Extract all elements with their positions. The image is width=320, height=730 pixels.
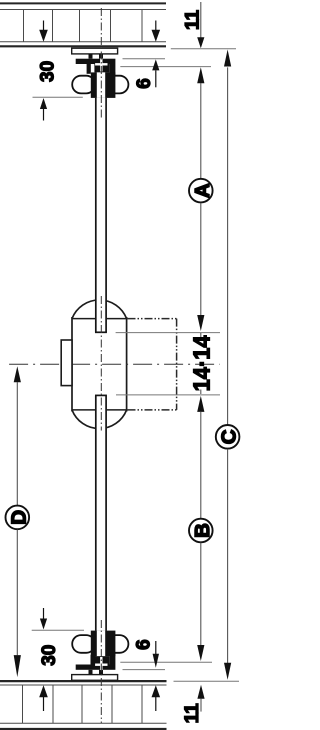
bottom rod guide ears [72,635,95,653]
rod white fill top section [95,98,107,333]
rod outlines top section [95,98,107,333]
top rod guide ears [72,76,95,94]
latch housing body [72,300,127,429]
dim 6 top [120,21,211,89]
svg-text:11: 11 [183,10,204,31]
housing left tab [61,340,72,386]
svg-text:A: A [191,183,214,198]
dim 11 top [171,2,236,49]
bottom clamp rod slot [97,631,105,657]
horizontal centerline [9,363,220,365]
bottom panel [0,681,167,729]
dim D [5,366,30,677]
bottom bracket left column [91,655,96,665]
bottom bracket plate [72,675,118,681]
bottom bracket screw flange [94,656,109,664]
dim 6 bottom [123,639,166,711]
dim 14·14 [189,333,215,394]
dim 11 bottom [182,685,204,724]
svg-text:C: C [218,429,241,444]
svg-text:30: 30 [38,61,59,82]
svg-text:D: D [7,510,30,525]
dim B [120,396,214,662]
svg-text:11: 11 [182,703,203,724]
dim 30 top [33,21,83,121]
bottom bracket arm bar [76,665,116,670]
svg-text:6: 6 [134,639,155,650]
svg-text:14·14: 14·14 [189,335,215,391]
top bracket arm bar [76,59,116,64]
top clamp rod slot [97,72,105,98]
top bracket nubs [89,54,93,59]
top clamp block [91,72,116,98]
bottom clamp block [91,631,116,657]
dim C [174,50,241,682]
rod outlines bottom section [95,395,107,630]
dim A [189,67,214,331]
top bracket right column [110,64,116,92]
bottom screw cross [100,657,102,670]
bottom bracket right column [110,637,116,665]
top bracket plate [72,48,118,54]
housing phantom outline (alternate position) [128,319,177,410]
rod vertical centerline [100,8,102,723]
svg-text:B: B [191,523,214,538]
dim 14·14 extension lines [116,332,220,334]
dim 30 bottom [32,608,84,711]
svg-text:6: 6 [134,78,155,89]
bottom bracket nubs [89,670,93,675]
top bracket screw flange [94,64,109,72]
rod white fill bottom section [95,395,107,631]
svg-text:30: 30 [39,645,60,666]
top screw cross [100,59,102,72]
top panel [0,3,166,46]
top bracket left column [87,64,91,74]
